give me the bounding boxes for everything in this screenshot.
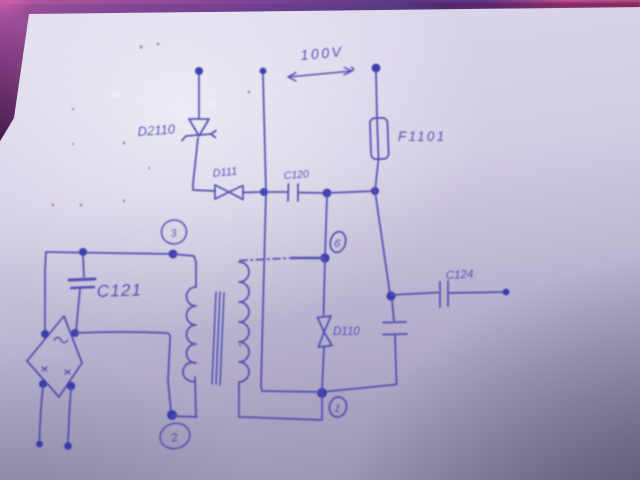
transformer secondary winding <box>239 262 249 382</box>
bridge terminal dot upper-right <box>71 329 79 337</box>
diode D110 vertical bowtie <box>318 316 333 347</box>
wire cap to bottom corner <box>395 335 397 384</box>
left top wire <box>46 252 173 254</box>
transformer primary winding <box>183 287 196 381</box>
capacitor C121 bottom lead <box>76 289 80 331</box>
bottom node junction <box>317 388 327 398</box>
circled 1 <box>328 396 348 419</box>
white paper blemishes <box>111 92 216 132</box>
terminal end dot right <box>64 442 72 450</box>
bridge bottom-left terminal wire <box>40 386 44 440</box>
wire node to fuse rail <box>327 191 375 193</box>
bridge ac mark ~ <box>54 338 68 343</box>
wire C124 to end dot <box>448 292 505 293</box>
svg-text:F1101: F1101 <box>398 129 446 144</box>
transformer core lines <box>212 292 224 385</box>
svg-text:D111: D111 <box>212 165 238 180</box>
circled 3 <box>160 218 188 245</box>
secondary bottom tail wire <box>239 382 322 420</box>
svg-text:2: 2 <box>169 431 180 445</box>
wire D111 to node <box>243 191 262 194</box>
terminal end dot left <box>36 441 43 448</box>
dash-dot line to transformer secondary <box>292 257 325 260</box>
svg-text:D2110: D2110 <box>137 121 176 139</box>
bridge polarity mark x left <box>42 367 47 371</box>
node C124 junction <box>386 291 395 300</box>
node B top of middle rail <box>260 68 267 75</box>
capacitor C121 plates <box>69 279 95 280</box>
svg-text:1: 1 <box>333 402 341 415</box>
svg-text:100V: 100V <box>300 43 344 63</box>
wire node 6 down to D110 <box>324 258 326 315</box>
wire C120 to node <box>298 192 323 195</box>
node middle rail / D111 junction <box>260 188 268 196</box>
middle rail vertical <box>261 75 266 391</box>
wire zener to corner to D111 <box>193 138 215 191</box>
capacitor C121 top lead <box>83 256 84 277</box>
svg-text:3: 3 <box>170 227 178 240</box>
wire node to primary winding top <box>173 254 196 287</box>
bottom wire node to middle rail corner <box>262 391 322 392</box>
svg-text:C124: C124 <box>446 269 474 282</box>
end terminal dot <box>503 289 510 296</box>
wire D110 to bottom node <box>322 347 324 390</box>
capacitor plates below C124 node <box>383 322 407 335</box>
circled 6 <box>328 230 348 254</box>
zener diode D2110 <box>189 119 209 136</box>
wire bridge to right, corner down <box>75 332 171 412</box>
wire node down to cap below <box>392 300 394 321</box>
node C top of fuse branch <box>372 64 381 73</box>
node primary bottom junction <box>167 410 177 420</box>
node A top of D210 branch <box>195 67 203 75</box>
circled 2 <box>157 420 192 452</box>
bridge rectifier diamond <box>27 316 82 397</box>
svg-text:C120: C120 <box>283 168 309 182</box>
bridge bottom-right terminal wire <box>68 388 71 442</box>
paper specks <box>52 43 251 347</box>
wire top node down to fuse <box>376 72 377 117</box>
bridge polarity mark x right <box>65 370 70 374</box>
svg-text:6: 6 <box>333 237 343 250</box>
capacitor C120 plates <box>288 184 298 201</box>
wire top node to zener <box>198 75 200 118</box>
left wire corner down to bridge <box>45 252 46 332</box>
node primary top junction <box>169 250 178 259</box>
fuse F1101 body <box>370 118 389 160</box>
capacitor C124 plates <box>440 281 448 307</box>
bridge terminal dot upper-left <box>41 330 49 338</box>
diode D111 bowtie <box>215 185 243 200</box>
wire C120 node down to node 6 <box>325 196 327 257</box>
bridge terminal dot lower-right <box>67 382 75 390</box>
svg-text:C121: C121 <box>96 280 142 301</box>
node fuse rail junction <box>371 187 379 195</box>
bottom wire right of node <box>322 385 397 393</box>
wire node to C120 <box>264 191 287 193</box>
arrow 100V double-headed <box>288 68 354 82</box>
node D110-branch top junction <box>323 189 332 198</box>
node C121 top lead <box>79 248 87 256</box>
wire node to C124 <box>391 293 438 296</box>
node 6 junction dot <box>320 253 329 262</box>
svg-text:D110: D110 <box>333 326 360 338</box>
wire fuse to rail node and down to C124 node <box>375 159 390 294</box>
wire node to winding bottom tail <box>172 377 197 417</box>
bridge terminal dot lower-left <box>39 380 47 388</box>
fuse element wire through <box>377 118 379 158</box>
